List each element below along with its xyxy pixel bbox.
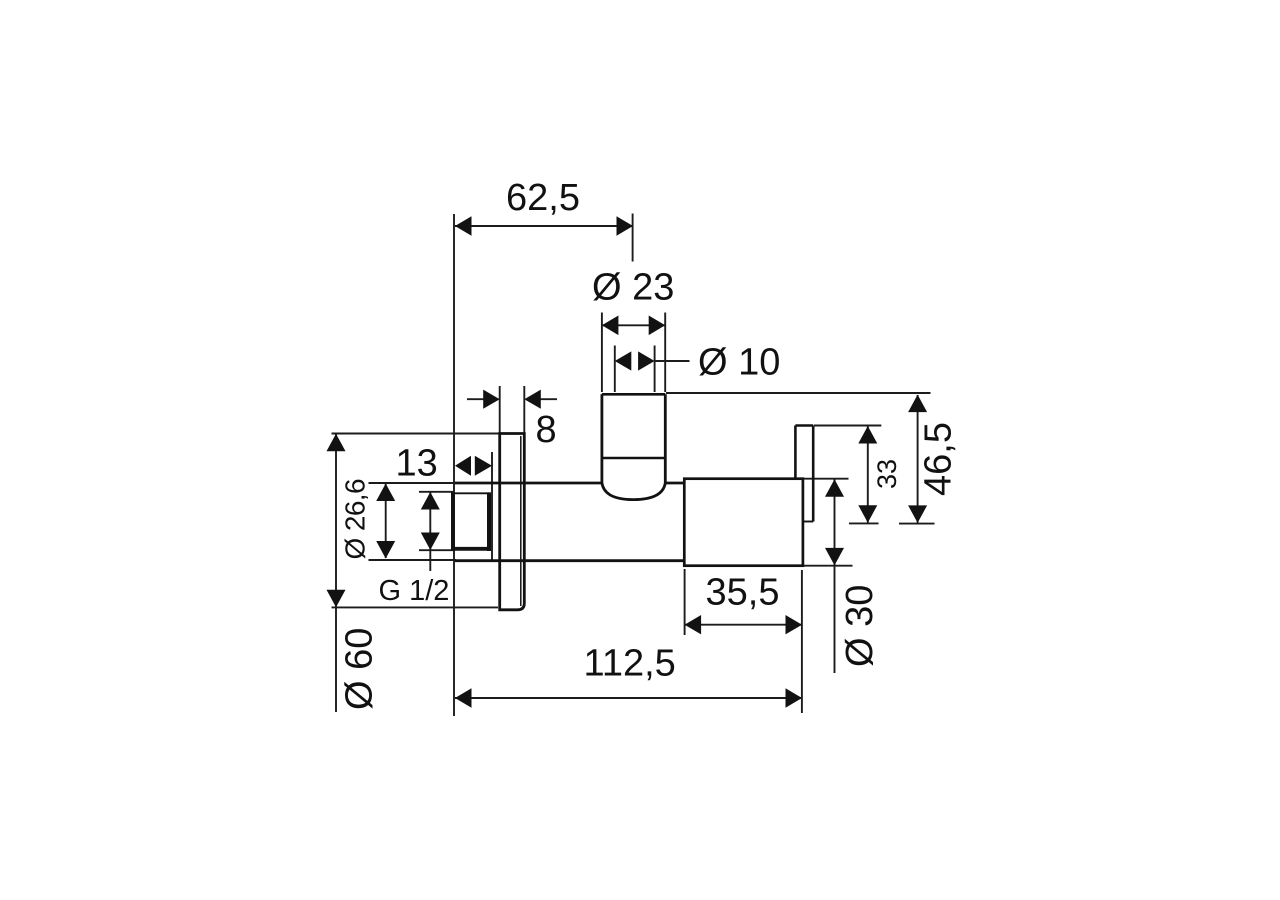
pipe bottom edge xyxy=(455,559,685,562)
svg-text:Ø 30: Ø 30 xyxy=(839,585,881,667)
dim O60 up arrow xyxy=(327,434,346,452)
dim 112,5 right arrow xyxy=(786,688,803,708)
dim 8 left arrow xyxy=(483,390,500,409)
svg-text:13: 13 xyxy=(396,443,438,485)
svg-text:Ø 60: Ø 60 xyxy=(338,628,380,710)
dim 35,5 left arrow xyxy=(685,615,702,634)
dim G1/2 down arrow xyxy=(421,533,440,551)
knob left side xyxy=(601,394,604,483)
dim O60 top extension xyxy=(332,433,500,435)
outlet pipe top xyxy=(795,424,813,427)
outlet pipe right edge xyxy=(812,426,815,522)
dim O26,6 up arrow xyxy=(376,484,395,502)
dim 62,5 right extension line xyxy=(632,214,634,262)
knob dome bottom xyxy=(602,483,665,500)
dim O30 down arrow xyxy=(825,548,844,566)
dim O30 up arrow xyxy=(825,479,844,497)
knob middle line xyxy=(602,457,665,459)
dim G1/2 up arrow xyxy=(421,492,440,510)
dim 13 left arrow xyxy=(455,456,471,476)
svg-text:62,5: 62,5 xyxy=(506,177,580,219)
dim G1/2 top extension xyxy=(419,491,453,493)
dim O30 bottom extension xyxy=(804,565,853,567)
dim O30 line xyxy=(834,479,836,673)
dim O23 left arrow xyxy=(602,316,619,336)
threaded nipple G1/2 bottom edge xyxy=(451,547,491,551)
dim 62,5 line xyxy=(455,225,633,227)
dim 33 up arrow xyxy=(858,426,877,444)
dim O10 right arrow xyxy=(638,351,655,370)
dim O26,6 bottom extension xyxy=(369,559,457,561)
thin lines group xyxy=(332,214,935,717)
outlet pipe bottom tick xyxy=(803,521,813,523)
dim 8 left tail xyxy=(467,398,484,400)
dim O10 left arrow xyxy=(615,351,632,370)
knob right side xyxy=(664,394,667,483)
dim O30 top extension xyxy=(804,478,849,480)
dim 46,5 bottom tick xyxy=(899,523,935,525)
flange plate outline xyxy=(500,434,525,610)
dim 62,5 right arrow xyxy=(617,216,634,236)
dim O60 bottom extension xyxy=(332,606,499,608)
dim 112,5 right extension xyxy=(801,570,803,713)
dim 33 top extension xyxy=(814,425,881,427)
dim 8 left extension xyxy=(499,386,501,433)
dim 33 down arrow xyxy=(858,505,877,523)
svg-text:35,5: 35,5 xyxy=(706,572,780,614)
dim 46,5 up arrow xyxy=(908,395,927,413)
pipe top edge right of knob xyxy=(665,482,685,485)
dim O23 right arrow xyxy=(649,316,666,336)
dim O10 leader xyxy=(655,360,690,362)
dim O10 left extension xyxy=(614,346,616,393)
dim 46,5 line xyxy=(917,395,919,523)
dim 33 line xyxy=(867,426,869,523)
dim O60 down arrow xyxy=(327,590,346,608)
arrowheads group xyxy=(327,216,928,708)
svg-text:Ø 26,6: Ø 26,6 xyxy=(340,479,371,559)
dim 13 right arrow xyxy=(475,456,492,476)
dim O60 line xyxy=(335,434,337,712)
dim G1/2 bottom extension xyxy=(419,549,453,551)
dim 13 right extension xyxy=(491,452,493,562)
dim 8 right arrow xyxy=(524,390,541,409)
dim 46,5 down arrow xyxy=(908,505,927,523)
dim O23 right extension xyxy=(664,313,666,393)
pipe top edge left of knob xyxy=(455,482,603,485)
labels group xyxy=(338,177,959,710)
dim 112,5 line xyxy=(455,697,802,699)
dim 8 right tail xyxy=(540,398,557,400)
dim O26,6 down arrow xyxy=(376,541,395,559)
dim O26,6 line xyxy=(385,484,387,558)
flange inner face line xyxy=(520,436,522,606)
dim O23 left extension xyxy=(601,313,603,393)
dim 46,5 top extension xyxy=(666,392,931,394)
knob top edge xyxy=(602,393,665,396)
dim 35,5 line xyxy=(685,624,802,626)
dim O10 right extension xyxy=(654,346,656,393)
svg-text:Ø 10: Ø 10 xyxy=(698,342,780,384)
valve body block xyxy=(684,479,803,566)
svg-text:G 1/2: G 1/2 xyxy=(379,575,450,607)
dim O26,6 top extension xyxy=(369,482,457,484)
threaded nipple G1/2 right edge xyxy=(487,492,491,551)
dim 35,5 left extension xyxy=(684,569,686,635)
threaded nipple G1/2 top edge xyxy=(451,492,491,494)
svg-text:8: 8 xyxy=(536,409,557,451)
dim 33 bottom tick xyxy=(849,522,879,524)
wall reference line xyxy=(453,214,455,716)
dim 112,5 left arrow xyxy=(455,688,472,708)
svg-text:Ø 23: Ø 23 xyxy=(592,267,674,309)
threaded nipple G1/2 left edge xyxy=(451,492,455,551)
valve part outline group xyxy=(451,394,813,610)
svg-text:46,5: 46,5 xyxy=(918,422,960,496)
dim O23 line xyxy=(602,324,665,326)
dim 62,5 left arrow xyxy=(455,216,472,236)
svg-text:33: 33 xyxy=(872,459,902,489)
dim 8 right extension xyxy=(523,386,525,433)
dim 35,5 right arrow xyxy=(786,615,803,634)
dim G1/2 line xyxy=(429,492,431,571)
outlet pipe left edge xyxy=(794,426,797,479)
svg-text:112,5: 112,5 xyxy=(584,643,676,685)
